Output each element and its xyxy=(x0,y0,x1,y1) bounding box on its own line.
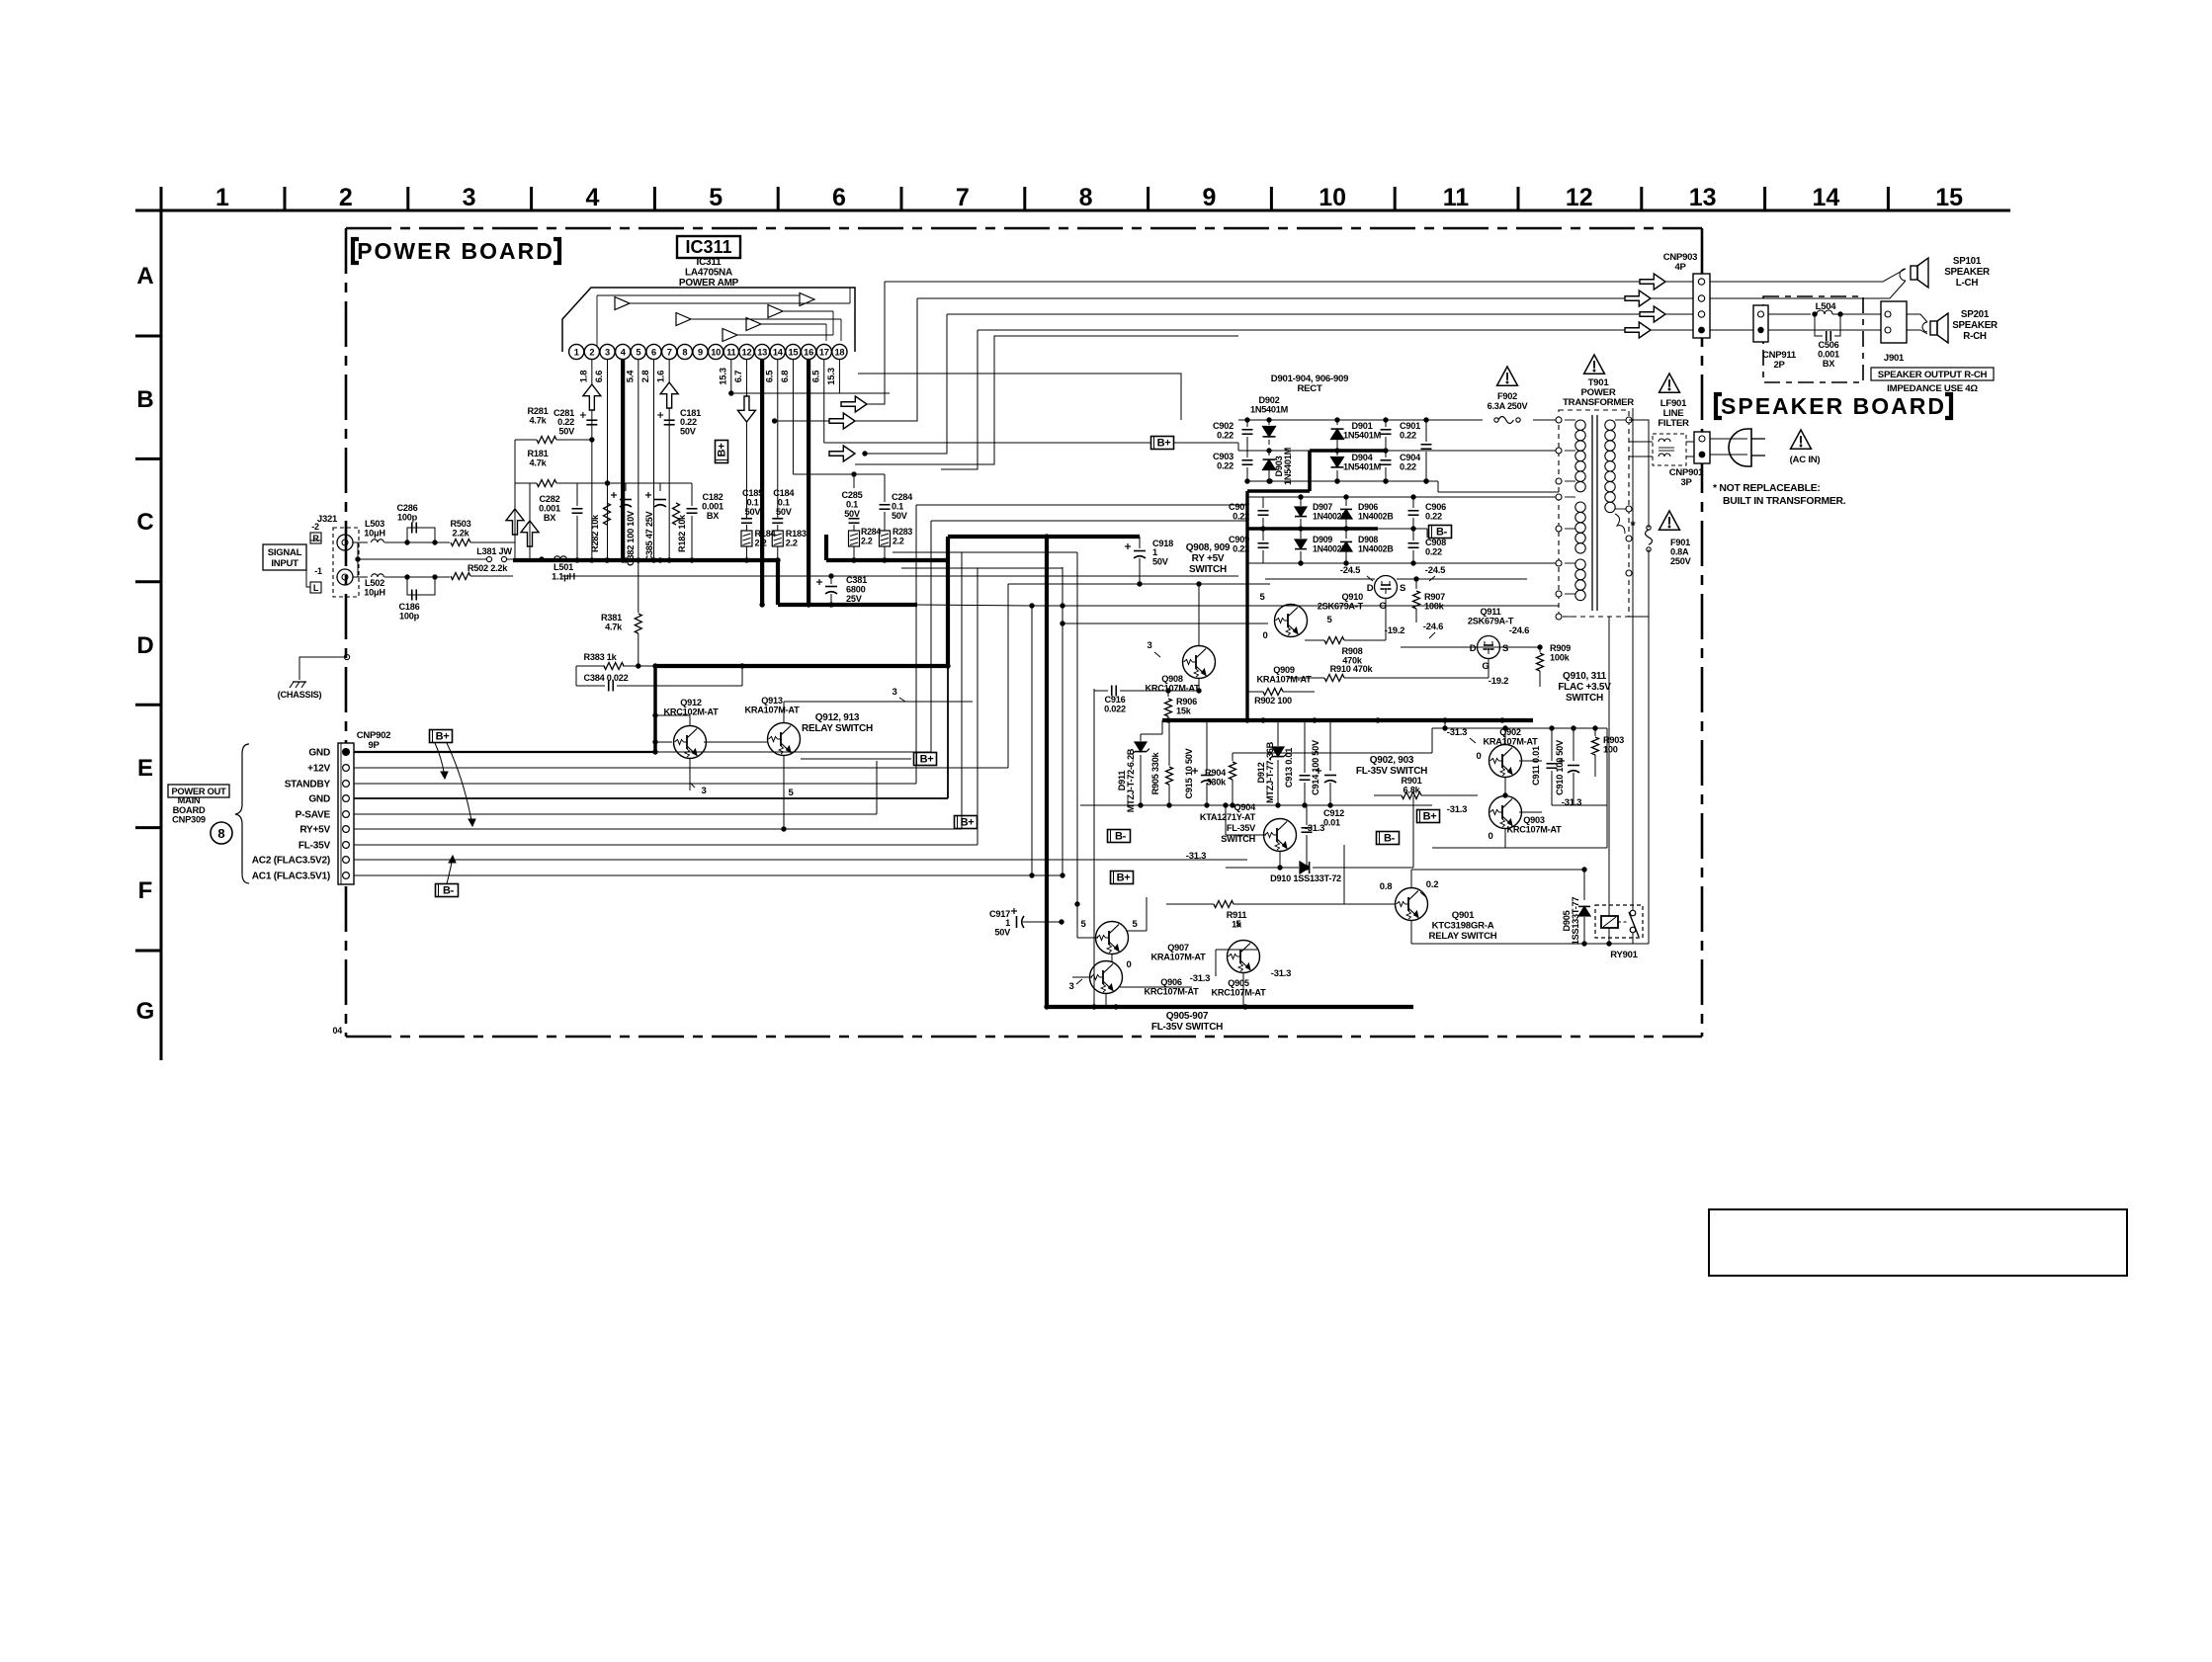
capacitor bridge1 bulk xyxy=(1421,417,1432,483)
svg-text:0.22: 0.22 xyxy=(1217,431,1234,441)
svg-text:B-: B- xyxy=(1436,527,1448,539)
RECT caption xyxy=(1271,374,1348,394)
svg-text:Q912: Q912 xyxy=(680,698,702,707)
svg-text:Q913: Q913 xyxy=(761,696,783,706)
wire Q912 emitter xyxy=(690,759,707,796)
svg-text:-31.3: -31.3 xyxy=(1190,973,1210,984)
power out tag xyxy=(168,785,232,844)
capacitor C381 xyxy=(816,575,867,605)
wire Q912 collector xyxy=(652,712,690,725)
connector CNP903 xyxy=(1663,252,1710,338)
svg-text:-31.3: -31.3 xyxy=(1447,727,1467,738)
svg-text:R381: R381 xyxy=(601,613,622,623)
transformer T901 primary xyxy=(1575,420,1585,601)
svg-text:R183: R183 xyxy=(786,529,807,539)
svg-text:330k: 330k xyxy=(1207,778,1228,788)
wire thick 1060 xyxy=(1045,537,1049,1007)
svg-text:Q907: Q907 xyxy=(1167,943,1189,953)
svg-text:5: 5 xyxy=(636,348,640,358)
svg-text:RY +5V: RY +5V xyxy=(1192,553,1225,564)
relay RY901 xyxy=(1595,905,1643,960)
power board title xyxy=(353,238,559,264)
ac plug xyxy=(1729,429,1765,466)
svg-text:KRC107M-AT: KRC107M-AT xyxy=(1506,825,1562,835)
note not replaceable xyxy=(1713,483,1846,507)
svg-text:KRA107M-AT: KRA107M-AT xyxy=(1483,737,1538,747)
svg-text:1N5401M: 1N5401M xyxy=(1250,405,1289,415)
svg-text:1.8: 1.8 xyxy=(578,371,589,382)
power board border xyxy=(332,228,1702,1037)
svg-text:50V: 50V xyxy=(994,927,1011,937)
svg-text:F902: F902 xyxy=(1497,391,1517,401)
curve arrow B+ xyxy=(435,743,475,826)
capacitor C281 xyxy=(553,408,597,436)
svg-text:R910 470k: R910 470k xyxy=(1330,664,1374,674)
svg-text:18: 18 xyxy=(834,348,844,358)
svg-text:Q904: Q904 xyxy=(1234,802,1257,812)
svg-text:3: 3 xyxy=(463,184,476,211)
svg-text:C382 100 10V: C382 100 10V xyxy=(626,510,636,566)
diode D907 xyxy=(1295,494,1347,531)
svg-text:C908: C908 xyxy=(1425,538,1446,547)
svg-text:2.2: 2.2 xyxy=(893,536,904,545)
wire AC1 xyxy=(354,552,1268,903)
zener D911 xyxy=(1117,720,1162,812)
resistor R904 xyxy=(1205,753,1235,805)
svg-text:A: A xyxy=(136,263,153,290)
wire B+ west xyxy=(824,442,1150,444)
svg-text:SIGNAL: SIGNAL xyxy=(268,547,302,558)
diode D901 xyxy=(1331,417,1382,453)
svg-text:Q910, 311: Q910, 311 xyxy=(1563,671,1607,682)
capacitor C913 xyxy=(1284,720,1311,805)
svg-text:B-: B- xyxy=(1384,833,1396,845)
svg-text:11: 11 xyxy=(1443,184,1470,211)
svg-text:3: 3 xyxy=(892,687,896,698)
svg-text:R282 10k: R282 10k xyxy=(590,514,600,552)
svg-text:1.6: 1.6 xyxy=(656,371,667,382)
svg-text:Q905: Q905 xyxy=(1228,978,1249,988)
svg-text:C916: C916 xyxy=(1105,695,1126,705)
svg-text:D: D xyxy=(1470,643,1477,654)
transformer T901 secondary xyxy=(1605,420,1615,513)
svg-text:C914 100 50V: C914 100 50V xyxy=(1311,739,1320,795)
svg-text:2.2: 2.2 xyxy=(786,539,798,548)
arrow right sp1 xyxy=(1640,274,1665,290)
resistor R905 xyxy=(1150,720,1173,805)
svg-text:Q912, 913: Q912, 913 xyxy=(815,712,860,723)
svg-text:RECT: RECT xyxy=(1297,383,1322,394)
arrow up pin7 xyxy=(660,382,678,408)
svg-text:C913 0.01: C913 0.01 xyxy=(1284,748,1294,788)
warn F902 xyxy=(1497,367,1518,385)
svg-text:R908: R908 xyxy=(1342,646,1363,656)
svg-text:2SK679A-T: 2SK679A-T xyxy=(1318,602,1364,612)
resistor R906 xyxy=(1165,691,1198,723)
bridge2 rails xyxy=(1247,497,1559,563)
svg-text:GND: GND xyxy=(308,793,330,804)
svg-text:2.2: 2.2 xyxy=(754,539,766,548)
svg-text:C904: C904 xyxy=(1400,453,1421,462)
svg-text:FL-35V: FL-35V xyxy=(298,840,331,851)
wire lf901 xyxy=(1629,442,1653,457)
svg-text:6.6: 6.6 xyxy=(594,371,605,382)
svg-text:0.2: 0.2 xyxy=(1426,879,1438,890)
arrow right sp3 xyxy=(1640,306,1665,322)
svg-text:* NOT REPLACEABLE:: * NOT REPLACEABLE: xyxy=(1713,483,1821,494)
bus right segment xyxy=(826,535,948,563)
svg-text:C286: C286 xyxy=(397,503,418,513)
svg-text:6.8: 6.8 xyxy=(780,371,791,382)
resistor R909 xyxy=(1502,643,1571,687)
speaker SP101 xyxy=(1911,256,1990,289)
transformer T901 terminals xyxy=(1556,417,1632,620)
svg-text:AC1 (FLAC3.5V1): AC1 (FLAC3.5V1) xyxy=(252,871,330,881)
svg-text:R904: R904 xyxy=(1205,768,1227,778)
svg-text:C384 0.022: C384 0.022 xyxy=(583,673,628,683)
svg-text:R: R xyxy=(312,534,319,543)
svg-text:0: 0 xyxy=(1476,751,1481,762)
inductor L503 xyxy=(364,519,409,545)
svg-text:Q902, 903: Q902, 903 xyxy=(1370,755,1414,766)
bus corner down xyxy=(775,557,780,605)
svg-text:D904: D904 xyxy=(1352,453,1374,462)
svg-text:6: 6 xyxy=(832,184,846,211)
svg-text:CNP309: CNP309 xyxy=(172,815,206,825)
diode D908 xyxy=(1340,529,1393,566)
RY5V caption xyxy=(1186,542,1231,575)
resistor R903 xyxy=(1592,728,1625,777)
diode D905 xyxy=(1411,867,1590,945)
svg-text:L503: L503 xyxy=(365,519,384,529)
wire R181 vertical xyxy=(529,483,531,560)
svg-text:R503: R503 xyxy=(451,519,471,529)
wire misc mid xyxy=(1023,584,1199,1010)
svg-text:4.7k: 4.7k xyxy=(530,416,548,426)
svg-text:C906: C906 xyxy=(1425,502,1446,512)
transistor Q903 xyxy=(1447,796,1581,843)
svg-text:KRA107M-AT: KRA107M-AT xyxy=(1150,953,1206,962)
wire -24.5 rail xyxy=(1265,565,1527,581)
svg-text:1: 1 xyxy=(574,348,579,358)
svg-text:2.8: 2.8 xyxy=(640,371,651,382)
svg-text:IMPEDANCE USE 4Ω: IMPEDANCE USE 4Ω xyxy=(1887,383,1978,394)
svg-text:KRA107M-AT: KRA107M-AT xyxy=(1256,675,1312,685)
svg-text:-24.6: -24.6 xyxy=(1423,622,1443,632)
svg-text:Q908, 909: Q908, 909 xyxy=(1186,542,1231,553)
svg-text:R901: R901 xyxy=(1402,776,1422,786)
svg-text:G: G xyxy=(1482,661,1489,672)
svg-text:FILTER: FILTER xyxy=(1658,418,1689,429)
svg-text:6.7: 6.7 xyxy=(733,371,744,382)
svg-text:13: 13 xyxy=(1689,184,1717,211)
IC311 pins 1-18 xyxy=(569,344,847,359)
svg-text:SWITCH: SWITCH xyxy=(1189,564,1227,575)
svg-text:R-CH: R-CH xyxy=(1963,331,1987,342)
svg-text:C385 47 25V: C385 47 25V xyxy=(644,510,654,561)
frame ruler xyxy=(135,184,2010,1060)
capacitor C904 xyxy=(1381,451,1422,484)
capacitor C184 xyxy=(772,488,795,523)
svg-text:Q908: Q908 xyxy=(1161,674,1183,684)
svg-text:RELAY SWITCH: RELAY SWITCH xyxy=(802,723,873,734)
svg-text:S: S xyxy=(1400,583,1405,594)
svg-text:1.1μH: 1.1μH xyxy=(552,572,575,582)
connector CNP902 xyxy=(338,730,390,884)
svg-text:AC2 (FLAC3.5V2): AC2 (FLAC3.5V2) xyxy=(252,855,330,866)
svg-text:17: 17 xyxy=(819,348,829,358)
wire Rch mid xyxy=(407,576,450,578)
bus main left xyxy=(513,557,778,562)
svg-text:L-CH: L-CH xyxy=(1956,278,1979,289)
transistor Q905 xyxy=(1190,919,1291,998)
svg-text:B-: B- xyxy=(443,885,455,897)
svg-text:IC311: IC311 xyxy=(697,257,723,268)
wire RY+5V xyxy=(354,552,1077,829)
wire bridge2 to T901 xyxy=(1453,562,1559,564)
svg-text:15.3: 15.3 xyxy=(718,368,728,385)
resistor R910 xyxy=(1287,658,1508,687)
connector J321 jacks xyxy=(333,528,359,597)
B+ tag q913 xyxy=(801,753,937,766)
svg-text:C911 0.01: C911 0.01 xyxy=(1531,746,1541,786)
svg-text:TRANSFORMER: TRANSFORMER xyxy=(1563,397,1634,408)
svg-text:4P: 4P xyxy=(1674,262,1686,273)
capacitor C385 xyxy=(644,492,666,561)
svg-text:BX: BX xyxy=(1823,359,1835,369)
svg-text:50V: 50V xyxy=(892,511,908,521)
capacitor C916 xyxy=(1094,679,1202,714)
B+ tag bridge xyxy=(1151,437,1239,450)
svg-text:50V: 50V xyxy=(680,426,697,436)
svg-text:P-SAVE: P-SAVE xyxy=(296,809,331,820)
B+ tag relay xyxy=(1417,810,1440,823)
capacitor C186 xyxy=(399,574,438,621)
resistor R901 xyxy=(1374,776,1478,799)
CNP902 net labels xyxy=(252,747,331,881)
bus 729 verts xyxy=(1245,491,1248,720)
svg-text:SPEAKER: SPEAKER xyxy=(1944,267,1990,278)
svg-text:-19.2: -19.2 xyxy=(1489,676,1508,687)
svg-text:3P: 3P xyxy=(1680,477,1692,488)
capacitor C917 xyxy=(989,908,1024,937)
svg-text:BX: BX xyxy=(707,511,720,521)
brace CNP902 xyxy=(235,744,249,883)
diode D902 xyxy=(1250,395,1289,454)
wire trunk 566 xyxy=(355,542,470,577)
svg-text:SPEAKER BOARD: SPEAKER BOARD xyxy=(1721,393,1946,419)
svg-text:MTZJ-T-77-36B: MTZJ-T-77-36B xyxy=(1265,741,1275,803)
svg-text:0.22: 0.22 xyxy=(1425,512,1442,522)
svg-text:RY901: RY901 xyxy=(1610,950,1638,960)
svg-text:15k: 15k xyxy=(1176,706,1192,716)
wire C285 top link xyxy=(793,471,885,476)
capacitor C906 xyxy=(1408,494,1447,531)
svg-text:L: L xyxy=(313,583,319,593)
svg-text:R902 100: R902 100 xyxy=(1254,696,1292,706)
svg-text:100: 100 xyxy=(1603,745,1618,755)
wire rail 583 xyxy=(562,573,1238,578)
capacitor C384 xyxy=(576,666,742,692)
svg-text:IC311: IC311 xyxy=(685,237,731,257)
wire fl box xyxy=(1233,720,1607,848)
wire bottom cluster xyxy=(1072,897,1257,1006)
svg-text:B+: B+ xyxy=(1157,438,1171,450)
capacitor C915 xyxy=(1184,720,1213,805)
fuse F901 xyxy=(1629,461,1692,617)
svg-text:R903: R903 xyxy=(1603,735,1624,745)
empty info box xyxy=(1709,1209,2127,1276)
resistor R283 xyxy=(880,527,913,563)
arrow right sp4 xyxy=(1625,322,1651,338)
wire Lch mid xyxy=(407,541,450,543)
wire sp201 xyxy=(1907,314,1927,334)
transformer T901 box xyxy=(1559,410,1629,617)
capacitor C901 xyxy=(1381,417,1421,453)
svg-text:1N5401M: 1N5401M xyxy=(1343,431,1382,441)
svg-text:6: 6 xyxy=(651,348,656,358)
arrow right sp2 xyxy=(1625,291,1651,306)
capacitor C908 xyxy=(1408,529,1447,566)
wire +12V xyxy=(354,581,1270,768)
svg-text:R281: R281 xyxy=(528,406,549,416)
svg-text:D908: D908 xyxy=(1358,535,1378,544)
ground chassis xyxy=(278,682,322,700)
wire FL-35V xyxy=(354,568,1063,845)
svg-text:14: 14 xyxy=(1812,184,1839,211)
transistor Q904 xyxy=(1186,802,1324,862)
bus low thin ext xyxy=(917,603,1559,608)
svg-text:4: 4 xyxy=(585,184,599,211)
B- tag bridge2 xyxy=(1429,526,1452,539)
svg-text:15: 15 xyxy=(789,348,799,358)
svg-text:D902: D902 xyxy=(1259,395,1280,405)
transistor Q901 xyxy=(1380,879,1497,942)
svg-text:R502 2.2k: R502 2.2k xyxy=(468,563,508,573)
wire AC2 xyxy=(354,859,1247,861)
svg-text:KRC107M-AT: KRC107M-AT xyxy=(1144,987,1199,997)
transformer T901 caption xyxy=(1563,355,1634,408)
svg-text:6.8k: 6.8k xyxy=(1404,786,1421,795)
svg-text:R182 10k: R182 10k xyxy=(677,514,687,552)
svg-text:FLAC +3.5V: FLAC +3.5V xyxy=(1558,682,1611,693)
svg-text:15: 15 xyxy=(1935,184,1963,211)
FLAC caption xyxy=(1558,671,1611,704)
svg-text:6.5: 6.5 xyxy=(764,370,775,382)
svg-text:3: 3 xyxy=(701,786,706,796)
svg-text:D910 1SS133T-72: D910 1SS133T-72 xyxy=(1270,873,1341,883)
svg-text:0: 0 xyxy=(1262,630,1267,641)
svg-text:100p: 100p xyxy=(399,612,420,622)
svg-text:11: 11 xyxy=(726,348,735,358)
transistor Q912 xyxy=(663,698,719,759)
bottom caption xyxy=(1151,1011,1223,1033)
diode D910 xyxy=(1226,795,1413,883)
wire P-SAVE xyxy=(354,761,877,814)
svg-text:-1: -1 xyxy=(314,566,322,576)
svg-text:8: 8 xyxy=(1079,184,1093,211)
svg-text:(CHASSIS): (CHASSIS) xyxy=(278,690,322,700)
warn LF901 xyxy=(1659,374,1680,392)
resistor R908 xyxy=(1305,637,1386,666)
svg-text:L501: L501 xyxy=(553,562,573,572)
capacitor C285 xyxy=(842,474,863,531)
svg-text:S: S xyxy=(1502,643,1508,654)
svg-text:7: 7 xyxy=(956,184,970,211)
svg-text:4.7k: 4.7k xyxy=(605,623,623,632)
svg-text:0.22: 0.22 xyxy=(1425,547,1442,557)
svg-text:G: G xyxy=(136,998,155,1025)
svg-text:D: D xyxy=(136,632,153,659)
svg-text:9: 9 xyxy=(1202,184,1216,211)
transistor Q909 xyxy=(1256,592,1312,685)
curve arrow B- xyxy=(447,856,456,883)
wire B- rail 815 xyxy=(1080,802,1432,807)
speaker SP201 xyxy=(1930,309,1998,343)
svg-text:R905 330k: R905 330k xyxy=(1150,752,1160,795)
svg-text:7: 7 xyxy=(667,348,672,358)
dashed box L504 xyxy=(1763,296,1863,382)
IC pin wires right group xyxy=(728,360,890,605)
wire L-ch xyxy=(353,541,368,543)
svg-text:Q903: Q903 xyxy=(1523,815,1545,825)
svg-text:SPEAKER: SPEAKER xyxy=(1952,320,1998,331)
resistor R383 xyxy=(576,652,745,670)
svg-text:POWER BOARD: POWER BOARD xyxy=(357,238,554,264)
svg-text:R911: R911 xyxy=(1227,910,1247,920)
wire rails to T901 xyxy=(1426,451,1559,492)
capacitor C903 xyxy=(1213,445,1252,484)
svg-text:0: 0 xyxy=(1488,831,1492,842)
svg-text:15.3: 15.3 xyxy=(826,368,837,385)
connector CNP901 xyxy=(1669,432,1710,488)
transistor Q902 xyxy=(1447,727,1538,778)
capacitor C907 xyxy=(1229,497,1268,532)
svg-text:1k: 1k xyxy=(1232,920,1242,930)
capacitor C182 xyxy=(687,483,724,560)
svg-text:-31.3: -31.3 xyxy=(1562,797,1581,808)
arrow up pin2 xyxy=(583,384,601,410)
svg-text:L502: L502 xyxy=(365,578,384,588)
connector J321 label xyxy=(317,514,338,525)
svg-text:-24.5: -24.5 xyxy=(1425,565,1446,576)
capacitor C918 xyxy=(1125,539,1173,584)
svg-text:1: 1 xyxy=(215,184,229,211)
wire q901 xyxy=(1344,845,1411,944)
IC311 internal amplifiers xyxy=(597,288,850,346)
svg-text:+12V: +12V xyxy=(307,763,330,774)
svg-text:D907: D907 xyxy=(1313,502,1332,512)
zener D912 xyxy=(1256,720,1287,805)
svg-text:BOARD: BOARD xyxy=(173,805,206,815)
inductor L504 xyxy=(1768,301,1883,317)
svg-text:8: 8 xyxy=(682,348,687,358)
B+ tag under IC xyxy=(716,441,728,463)
transformer tap star xyxy=(1615,514,1636,534)
svg-text:04: 04 xyxy=(332,1026,342,1036)
svg-text:-19.2: -19.2 xyxy=(1385,625,1404,636)
svg-text:KTA1271Y-AT: KTA1271Y-AT xyxy=(1200,812,1256,822)
svg-text:B+: B+ xyxy=(436,731,450,743)
svg-text:2: 2 xyxy=(339,184,353,211)
B+ tag mid xyxy=(1111,872,1134,884)
svg-text:50V: 50V xyxy=(844,509,861,519)
svg-text:6.5: 6.5 xyxy=(810,370,821,382)
resistor R907 xyxy=(1413,576,1446,623)
svg-text:1SS133T-77: 1SS133T-77 xyxy=(1571,897,1580,946)
capacitor C911 xyxy=(1531,725,1558,805)
svg-text:R383 1k: R383 1k xyxy=(584,652,618,662)
